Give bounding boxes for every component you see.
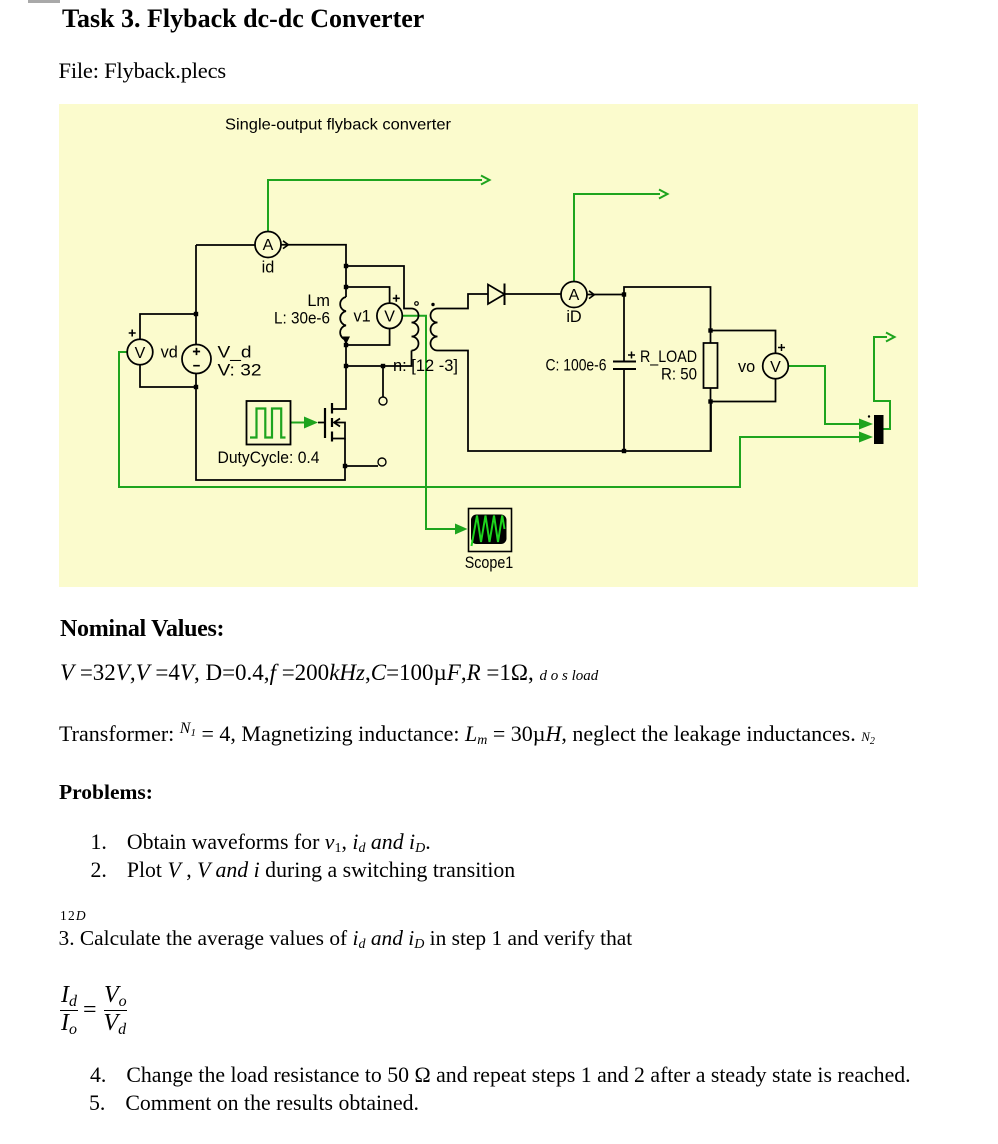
- pulse generator: [247, 401, 291, 445]
- wire id signal green: [268, 180, 482, 232]
- junction v1 top node: [344, 285, 348, 289]
- svg-text:A: A: [263, 237, 274, 254]
- junction primary top node: [344, 264, 348, 268]
- wire vo signal green: [788, 366, 859, 424]
- svg-text:V_d: V_d: [218, 344, 252, 362]
- svg-text:V: V: [135, 345, 146, 362]
- scope block: [469, 509, 512, 552]
- source V_d: [182, 345, 211, 374]
- capacitor C plates: [613, 361, 636, 363]
- MOSFET Q1: [324, 408, 326, 438]
- junction v1 bottom node: [344, 343, 348, 347]
- junction terminal stub node: [381, 364, 385, 368]
- transformer dot primary: [415, 302, 419, 306]
- item 3: [59, 928, 633, 949]
- wire top rail to R_LOAD: [624, 287, 711, 343]
- item 4: [90, 1065, 911, 1087]
- junction vo top node: [708, 328, 712, 332]
- junction source node: [343, 464, 347, 468]
- svg-text:V: V: [384, 309, 395, 326]
- wire branch to primary top: [346, 266, 412, 309]
- title: [62, 6, 424, 32]
- wire below Lm to drain: [332, 340, 346, 409]
- junction vd bottom node: [194, 385, 198, 389]
- wire ammeter to right vertical: [281, 245, 346, 297]
- wire primary bottom: [346, 351, 412, 367]
- wire vo top branch: [711, 331, 776, 354]
- svg-text:id: id: [262, 259, 275, 277]
- wire left vertical lower + bottom rail: [196, 374, 345, 481]
- svg-text:A: A: [569, 287, 580, 304]
- svg-text:iD: iD: [566, 308, 581, 326]
- svg-text:vo: vo: [738, 358, 755, 376]
- arrowhead gate: [304, 417, 318, 429]
- diode D1: [488, 285, 505, 305]
- svg-text:v1: v1: [354, 308, 371, 326]
- transformer dot secondary: [431, 303, 434, 306]
- wire v1 signal green: [402, 316, 455, 529]
- wire R bottom: [710, 388, 712, 451]
- svg-text:Lm: Lm: [307, 292, 330, 310]
- svg-text:n: [12 -3]: n: [12 -3]: [393, 357, 458, 375]
- svg-text:L: 30e-6: L: 30e-6: [274, 310, 330, 328]
- inductor Lm: [340, 297, 346, 340]
- wire vd signal green: [119, 352, 859, 487]
- wire vd bottom branch: [140, 365, 196, 387]
- wire top left to ammeter: [196, 244, 255, 246]
- junction cap bottom node: [622, 449, 626, 453]
- wire v1 top branch: [346, 287, 390, 303]
- svg-text:DutyCycle: 0.4: DutyCycle: 0.4: [218, 449, 320, 467]
- list item 2: [91, 860, 516, 882]
- Problems heading: [59, 782, 153, 804]
- arrowhead into scope: [455, 524, 468, 535]
- wire v1 bottom branch: [346, 329, 390, 346]
- wire gate signal green: [291, 422, 305, 424]
- voltmeter vo: [763, 353, 789, 379]
- svg-text:R_LOAD: R_LOAD: [640, 348, 697, 366]
- values line: [60, 661, 598, 684]
- open terminal upper: [379, 397, 387, 405]
- arrowhead into mux input 1: [859, 419, 873, 430]
- wire cap bottom: [623, 370, 625, 451]
- transformer secondary winding: [431, 309, 438, 351]
- transformer primary winding: [412, 309, 419, 351]
- ammeter id: [255, 232, 281, 258]
- wire source stub: [345, 465, 378, 467]
- schematic background: [59, 104, 918, 587]
- svg-text:vd: vd: [161, 344, 178, 362]
- resistor R_LOAD: [704, 343, 718, 388]
- list item 1: [91, 832, 431, 854]
- svg-text:Scope1: Scope1: [465, 554, 514, 572]
- svg-text:V: V: [770, 359, 781, 376]
- arrowhead into mux input 2: [859, 432, 873, 443]
- junction vo bottom node: [708, 399, 712, 403]
- svg-text:R: 50: R: 50: [661, 366, 697, 384]
- file line: [59, 60, 226, 83]
- open terminal lower: [378, 458, 386, 466]
- junction vd top node: [194, 312, 198, 316]
- capacitor plus: [628, 352, 635, 359]
- gray bar: [28, 0, 60, 3]
- wire iD signal green: [574, 194, 660, 282]
- junction cap top node: [622, 292, 626, 296]
- item 5: [89, 1093, 419, 1115]
- transformer line: [59, 723, 875, 745]
- wire vd top branch: [140, 314, 196, 339]
- junction drain node: [344, 364, 348, 368]
- wire iD to cap node: [587, 294, 624, 296]
- wire secondary bottom to ground rail: [438, 351, 712, 452]
- mux: [874, 415, 884, 444]
- svg-text:C: 100e-6: C: 100e-6: [546, 357, 607, 375]
- wire left vertical upper: [195, 245, 197, 345]
- ammeter iD: [561, 282, 587, 308]
- svg-text:V: 32: V: 32: [218, 362, 262, 380]
- wire secondary top to diode: [438, 294, 489, 309]
- fraction: [61, 983, 77, 1007]
- voltmeter vd: [127, 339, 153, 365]
- wire diode to ammeter iD: [505, 293, 562, 295]
- inductor arrow: [342, 337, 350, 345]
- svg-text:Single-output flyback converte: Single-output flyback converter: [225, 117, 452, 134]
- wire vo bottom branch: [711, 379, 776, 402]
- wire mux output green: [874, 337, 890, 429]
- voltmeter v1: [377, 303, 402, 328]
- 12D: [60, 909, 87, 923]
- wire cap top: [623, 295, 625, 361]
- wire stub terminal upper: [382, 366, 384, 397]
- Nominal Values heading: [60, 617, 224, 641]
- schematic labels: [161, 259, 756, 573]
